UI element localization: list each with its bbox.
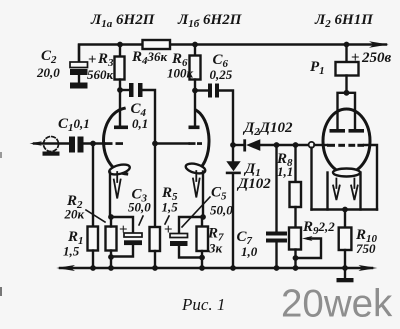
resistor R2 xyxy=(106,227,117,251)
node R7/C5 bottom junction xyxy=(199,255,205,261)
svg-text:20,0: 20,0 xyxy=(36,65,60,80)
svg-text:3к: 3к xyxy=(208,241,223,256)
capacitor C1 xyxy=(69,137,75,153)
node cathode1 junction xyxy=(108,214,114,220)
svg-text:250в: 250в xyxy=(361,50,392,66)
junction R10-bus xyxy=(342,265,348,271)
grid 1 dashes xyxy=(105,142,113,145)
wire top supply bus xyxy=(79,45,143,63)
anode 2 plate xyxy=(189,126,200,130)
triode U1b envelope xyxy=(196,110,209,169)
ground under R10 xyxy=(337,278,354,282)
node R2/C3 bottom junction xyxy=(108,254,114,260)
svg-text:Рис. 1: Рис. 1 xyxy=(181,295,225,314)
wire cathode3 bottom line xyxy=(312,208,378,210)
grid 2 dashes xyxy=(189,142,196,145)
heater arrow 2 xyxy=(193,171,200,198)
capacitor C4 xyxy=(120,89,129,91)
potentiometer R9 xyxy=(289,228,301,250)
R9 wiper arm xyxy=(296,239,322,259)
capacitor C2 xyxy=(78,45,80,62)
junction R9-bus xyxy=(293,265,299,271)
svg-text:560к: 560к xyxy=(87,67,114,82)
wire anode3 split xyxy=(338,93,356,129)
triode U1a envelope xyxy=(104,108,127,174)
wire cathode2 down xyxy=(202,172,204,218)
ground under input jack xyxy=(43,152,60,156)
node top bus right arrow +250v xyxy=(369,41,389,48)
wire grid3 right to cathode xyxy=(364,145,377,210)
wire detector line xyxy=(233,144,243,146)
relay P1 xyxy=(344,42,350,48)
svg-text:100к: 100к xyxy=(167,66,194,81)
diode D1 xyxy=(232,145,234,161)
svg-text:1,5: 1,5 xyxy=(63,244,80,259)
svg-text:Л1а 6Н2П: Л1а 6Н2П xyxy=(90,12,156,30)
svg-text:+: + xyxy=(351,50,360,66)
wire grid node down to cathode line xyxy=(310,148,312,210)
heater arrows U2 xyxy=(333,179,340,201)
svg-text:+: + xyxy=(88,52,97,68)
wire cathode3 leads xyxy=(326,173,328,210)
junction C7-bus xyxy=(274,265,280,271)
pointer C3 label xyxy=(139,216,143,225)
svg-text:+: + xyxy=(164,222,173,238)
svg-text:+: + xyxy=(119,222,128,238)
svg-text:Д102: Д102 xyxy=(236,176,271,192)
svg-text:750: 750 xyxy=(356,241,376,256)
capacitor C7 xyxy=(275,145,277,232)
heater arrow 1 xyxy=(114,172,121,199)
pointer R5 label xyxy=(165,216,169,224)
resistor R1 xyxy=(92,144,94,226)
svg-text:0,1: 0,1 xyxy=(132,116,148,131)
cathode 2 xyxy=(185,162,207,175)
resistor R8 xyxy=(293,142,299,148)
ground under C2 xyxy=(70,83,88,89)
resistor R4 xyxy=(143,40,171,49)
svg-text:1,1: 1,1 xyxy=(277,164,293,179)
junction R2-bus xyxy=(108,265,114,271)
svg-text:Л1б 6Н2П: Л1б 6Н2П xyxy=(177,12,243,30)
capacitor C5 electrolytic xyxy=(179,217,203,234)
junction R1-bus xyxy=(90,265,96,271)
capacitor C6 xyxy=(195,89,208,91)
node R6 top junction xyxy=(192,42,198,48)
svg-text:1,5: 1,5 xyxy=(162,200,179,215)
resistor R5 xyxy=(154,144,156,228)
node cathode2 junction xyxy=(200,214,206,220)
anode 3 plates xyxy=(330,129,346,133)
junction R7-bus xyxy=(199,265,205,271)
grid 3 dashes xyxy=(327,144,335,147)
svg-text:50,0: 50,0 xyxy=(128,200,151,215)
svg-text:1,0: 1,0 xyxy=(241,244,258,259)
edge artifact bottom-left xyxy=(0,287,2,296)
wire grid3 to tube xyxy=(314,144,327,146)
svg-text:50,0: 50,0 xyxy=(210,203,233,218)
svg-text:20к: 20к xyxy=(64,207,85,222)
node C6/D1/D2 junction xyxy=(230,142,236,148)
pointer R2 label xyxy=(86,210,105,222)
anode 1 plate xyxy=(114,126,128,130)
input arrow xyxy=(34,142,69,144)
input shielded jack dashed circle xyxy=(44,137,59,152)
node anode1 / C4 junction xyxy=(117,87,123,93)
wire cathode1 down xyxy=(109,173,111,218)
node R3 top junction xyxy=(117,42,123,48)
node anode2 / C6 junction xyxy=(192,88,198,94)
junction D1-bus xyxy=(230,265,236,271)
resistor R10 xyxy=(344,210,346,228)
pointer C5 label xyxy=(182,197,210,227)
cathode 3 xyxy=(333,169,360,177)
node grid3 ring junction xyxy=(309,142,315,148)
junction R5-bus xyxy=(152,265,158,271)
wire grid2 from C4 xyxy=(152,141,158,147)
node anode3 junction xyxy=(344,90,350,96)
diode D2 xyxy=(243,139,246,151)
svg-text:Д2Д102: Д2Д102 xyxy=(242,120,293,138)
wire bottom ground bus xyxy=(60,267,372,269)
resistor R3 xyxy=(119,45,121,57)
svg-text:Л2 6Н1П: Л2 6Н1П xyxy=(314,12,374,30)
triode U2 envelope xyxy=(323,109,370,173)
node grid1 / R1 junction xyxy=(90,141,96,147)
cathode 1 xyxy=(108,163,131,177)
svg-text:20wek: 20wek xyxy=(281,283,393,326)
resistor R7 xyxy=(201,217,203,227)
capacitor C3 electrolytic xyxy=(111,217,133,233)
svg-text:0,25: 0,25 xyxy=(210,67,233,82)
resistor R6 xyxy=(194,45,196,56)
